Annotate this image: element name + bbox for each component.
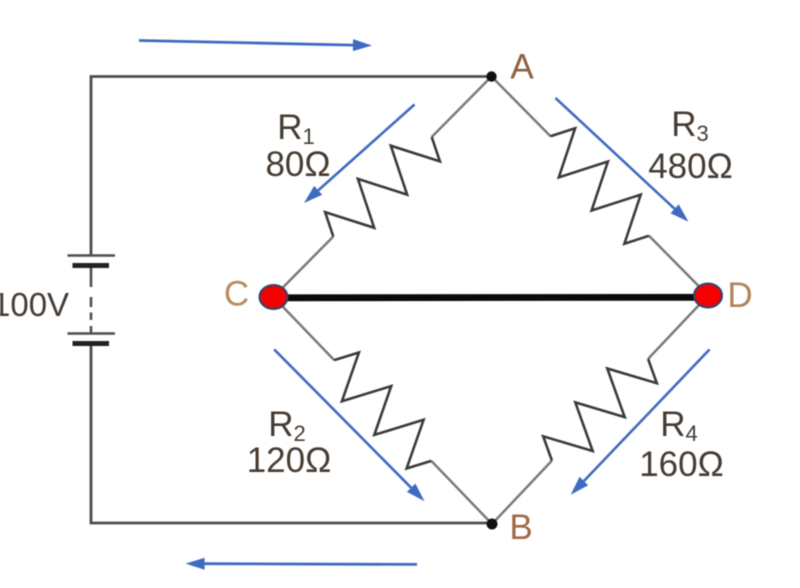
svg-text:120Ω: 120Ω [247,441,332,480]
battery V1 100V [68,256,116,344]
value label 120ohm [247,441,332,480]
label R1 [277,108,315,149]
resistor R3 (between A and D) [492,77,709,296]
current arrow top (left to right) [139,39,372,51]
node D terminal (red) [694,284,722,308]
current arrow through R2 (down-right) [274,349,424,501]
svg-text:D: D [727,276,752,315]
svg-text:R4: R4 [660,405,698,446]
value label 480ohm [648,147,733,186]
node A junction dot [486,71,496,81]
battery value label 100V [0,286,69,323]
current arrow through R3 (down-right) [555,98,688,222]
current arrow through R1 (down-left) [304,105,415,204]
svg-text:R2: R2 [268,405,306,446]
node label D [727,276,752,315]
value label 80ohm [265,145,330,184]
node C terminal (red) [260,285,288,309]
node label C [224,275,249,314]
svg-text:100V: 100V [0,286,69,323]
resistor R2 (between C and B) [274,297,493,524]
wire bottom: battery to node B [91,346,492,523]
svg-text:B: B [509,508,532,547]
current arrow through R4 (down-left) [571,349,710,494]
value label 160ohm [639,445,724,484]
svg-text:C: C [224,275,249,314]
svg-text:R1: R1 [277,108,315,149]
resistor R1 (between C and A) [274,77,492,298]
wire top: battery to node A [91,77,492,255]
svg-text:A: A [510,48,534,87]
node B junction dot [487,519,498,530]
current arrow bottom (right to left) [186,558,417,570]
galvanometer wire C to D (thick) [276,294,706,301]
svg-text:80Ω: 80Ω [265,145,330,184]
label R3 [671,105,709,146]
node label A [510,48,534,87]
svg-text:R3: R3 [671,105,709,146]
svg-text:480Ω: 480Ω [648,147,733,186]
node label B [509,508,532,547]
svg-text:160Ω: 160Ω [639,445,724,484]
label R4 [660,405,698,446]
label R2 [268,405,306,446]
resistor R4 (between D and B) [492,296,708,525]
